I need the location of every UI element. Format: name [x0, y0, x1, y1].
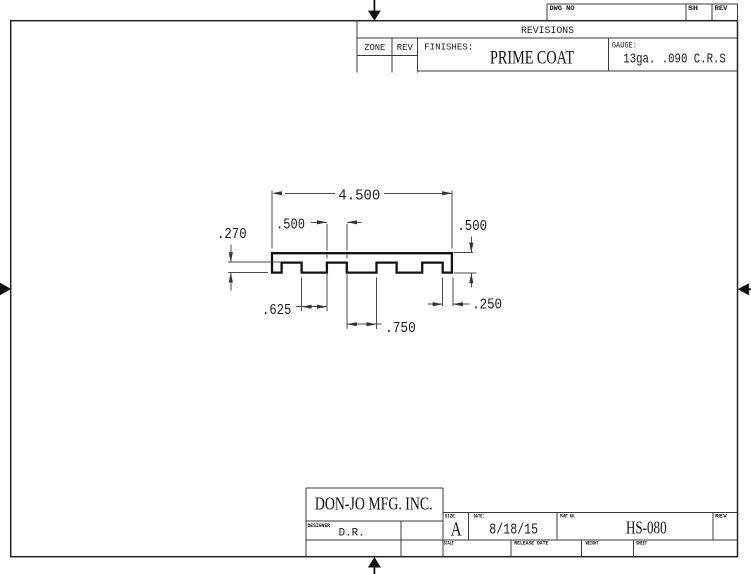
svg-text:WEIGHT: WEIGHT — [586, 539, 599, 546]
svg-text:REVISIONS: REVISIONS — [521, 26, 574, 37]
svg-text:.500: .500 — [457, 218, 487, 235]
svg-text:8/18/15: 8/18/15 — [489, 522, 538, 539]
svg-text:.270: .270 — [217, 226, 247, 243]
svg-text:RELEASE DATE: RELEASE DATE — [514, 539, 549, 546]
svg-text:4.500: 4.500 — [338, 187, 380, 204]
svg-text:DESIGNER: DESIGNER — [308, 522, 331, 529]
svg-text:DATE:: DATE: — [474, 513, 485, 520]
svg-text:FINISHES:: FINISHES: — [424, 43, 473, 53]
svg-text:DON-JO MFG. INC.: DON-JO MFG. INC. — [315, 494, 433, 514]
svg-text:.625: .625 — [262, 302, 291, 319]
svg-text:REV: REV — [397, 43, 414, 53]
svg-text:PRIME COAT: PRIME COAT — [490, 49, 574, 69]
svg-text:HS-080: HS-080 — [626, 517, 667, 537]
svg-text:SHEET: SHEET — [636, 539, 647, 546]
svg-text:ZONE: ZONE — [364, 43, 385, 53]
svg-text:.750: .750 — [385, 320, 416, 337]
svg-text:A: A — [451, 518, 462, 540]
svg-text:DWG NO: DWG NO — [550, 5, 575, 12]
svg-text:REV: REV — [715, 5, 728, 12]
svg-text:PART NO.: PART NO. — [560, 513, 576, 520]
svg-text:.500: .500 — [276, 217, 305, 234]
svg-text:GAUGE:: GAUGE: — [612, 41, 637, 51]
svg-text:13ga. .090 C.R.S: 13ga. .090 C.R.S — [623, 53, 726, 68]
svg-text:.250: .250 — [472, 297, 502, 314]
svg-text:SH: SH — [688, 5, 698, 12]
svg-text:REV: REV — [715, 512, 728, 519]
svg-text:SCALE: SCALE — [444, 539, 454, 546]
svg-text:D.R.: D.R. — [339, 528, 365, 540]
